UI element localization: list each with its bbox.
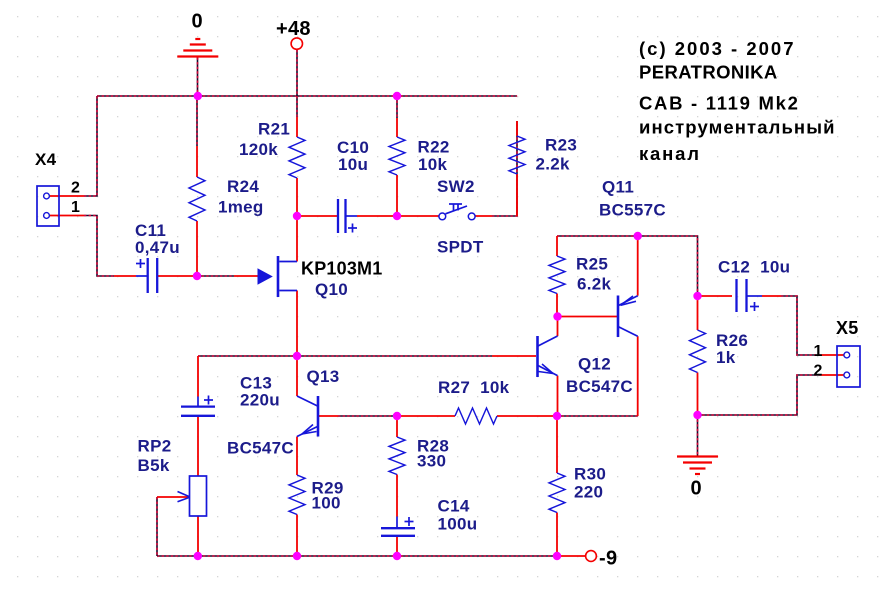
wire Q11 emitter rail to C12 node <box>557 236 698 296</box>
net label 0 right <box>691 478 702 500</box>
net label 0 top <box>192 11 203 33</box>
wire R30 pins <box>556 416 558 556</box>
wire C14 bottom pin <box>396 536 398 556</box>
resistor R25 <box>549 256 565 294</box>
wire R26 pins <box>697 296 699 415</box>
wire Q12 base pin <box>492 355 536 357</box>
value label BC547C <box>566 377 633 396</box>
wire X4 pin1 to C11 <box>84 216 114 277</box>
svg-text:220u: 220u <box>240 391 280 410</box>
wire C12 to X5 pin1 <box>781 296 821 355</box>
value label 220 <box>574 483 603 502</box>
wire Q11 base pin <box>557 316 617 318</box>
pin number 2 X4 <box>71 180 80 197</box>
value label R25 <box>576 255 608 274</box>
value label B5k <box>138 456 170 475</box>
value label R28 <box>417 437 449 456</box>
svg-text:R24: R24 <box>227 177 259 196</box>
wire Q13 collector emitter pins <box>296 356 298 475</box>
transistor Q12 <box>538 336 558 377</box>
value label Q12 <box>578 355 611 374</box>
value label R27 10k <box>438 378 510 397</box>
value label C12 10u <box>718 258 790 277</box>
value label R30 <box>574 465 606 484</box>
value label C11 <box>135 221 166 240</box>
wire X5 pin stubs <box>821 355 844 375</box>
wire R24 pins <box>196 146 198 276</box>
svg-text:-9: -9 <box>599 548 617 570</box>
wire R26 node to ground <box>697 415 699 456</box>
value label 10u <box>338 155 368 174</box>
junction <box>293 212 301 220</box>
wire X4 pin2 to bus <box>84 96 97 196</box>
wire R27 node to Q11 collector <box>557 415 638 417</box>
connector X5 <box>837 346 860 387</box>
value label 10k <box>418 155 448 174</box>
value label 1meg <box>218 198 264 217</box>
junction <box>553 312 561 320</box>
title text block <box>639 38 836 164</box>
value label 6.2k <box>577 275 612 294</box>
svg-text:C12 10u: C12 10u <box>718 258 790 277</box>
value label SW2 <box>437 177 475 196</box>
value label R24 <box>227 177 259 196</box>
wire +48 to R21 <box>296 50 298 117</box>
svg-text:R30: R30 <box>574 465 606 484</box>
svg-text:1meg: 1meg <box>218 198 264 217</box>
wire C11 node to Q10 gate <box>197 275 234 277</box>
junction <box>393 212 401 220</box>
svg-text:R25: R25 <box>576 255 608 274</box>
resistor R24 <box>189 177 205 221</box>
wire -9 terminal stub <box>557 555 586 557</box>
junction <box>293 552 301 560</box>
power terminal +48 <box>291 38 302 49</box>
value label 0,47u <box>135 238 180 257</box>
capacitor C12 <box>737 279 763 312</box>
svg-text:10k: 10k <box>418 155 448 174</box>
value label Q11 <box>602 178 634 197</box>
wire R22 pins <box>396 118 398 216</box>
svg-text:2: 2 <box>814 363 823 380</box>
transistor Q13 <box>297 396 318 437</box>
value label R29 <box>312 479 344 498</box>
junction <box>393 412 401 420</box>
value label R21 <box>258 120 290 139</box>
wire C11 pin right <box>158 275 197 277</box>
junction <box>693 292 701 300</box>
svg-text:B5k: B5k <box>138 456 170 475</box>
wire corner <box>516 95 518 97</box>
wire bus to R24 <box>196 96 198 146</box>
value label R22 <box>418 138 450 157</box>
resistor R26 <box>690 330 706 373</box>
svg-text:SW2: SW2 <box>437 177 475 196</box>
value label SPDT <box>437 238 484 257</box>
wire R25 pins <box>556 236 558 317</box>
svg-text:2: 2 <box>71 180 80 197</box>
svg-text:0,47u: 0,47u <box>135 238 180 257</box>
wire R23 pins <box>516 121 518 216</box>
wire R21 pins <box>296 117 298 216</box>
resistor R23 <box>509 136 525 174</box>
svg-text:X4: X4 <box>35 150 57 169</box>
svg-text:100: 100 <box>312 494 341 513</box>
svg-text:100u: 100u <box>438 515 478 534</box>
value label BC557C <box>599 201 666 220</box>
junction <box>193 272 201 280</box>
junction <box>553 552 561 560</box>
value label 100 <box>312 494 341 513</box>
svg-text:CAB - 1119 Mk2: CAB - 1119 Mk2 <box>639 93 800 114</box>
wire C12 pins <box>698 295 782 297</box>
resistor R28 <box>389 437 405 475</box>
ground 0 right <box>677 457 718 475</box>
label X5 <box>836 318 859 338</box>
value label R26 <box>716 331 748 350</box>
value label C13 <box>240 374 272 393</box>
switch SW2 <box>439 204 475 220</box>
svg-text:120k: 120k <box>239 140 278 159</box>
junction <box>393 552 401 560</box>
svg-text:инструментальный: инструментальный <box>639 117 836 138</box>
capacitor C10 <box>338 199 357 233</box>
svg-text:(c) 2003 - 2007: (c) 2003 - 2007 <box>639 38 796 59</box>
value label C14 <box>438 497 470 516</box>
svg-text:R21: R21 <box>258 120 290 139</box>
label X4 <box>35 150 57 169</box>
junction <box>393 92 401 100</box>
value label Q13 <box>307 367 340 386</box>
svg-text:Q12: Q12 <box>578 355 611 374</box>
svg-text:PERATRONIKA: PERATRONIKA <box>639 62 778 83</box>
svg-text:Q13: Q13 <box>307 367 340 386</box>
wire Q13 base pin <box>319 415 338 417</box>
svg-text:1: 1 <box>814 343 823 360</box>
wire RP2 wiper drop <box>156 497 158 556</box>
transistor Q11 <box>618 296 638 338</box>
resistor R27 <box>455 408 497 424</box>
ground 0 top-left <box>177 39 218 57</box>
value label 120k <box>239 140 278 159</box>
wire Q10 drain and source pins <box>296 216 298 356</box>
junction <box>693 411 701 419</box>
capacitor C13 <box>181 396 215 416</box>
connector X4 <box>37 186 59 226</box>
wire ground bus top <box>97 95 517 97</box>
wire X4 pin stubs <box>49 196 84 216</box>
svg-text:X5: X5 <box>836 318 859 338</box>
junction <box>634 232 642 240</box>
value label R23 <box>545 136 577 155</box>
potentiometer RP2 <box>157 476 207 516</box>
wire bus to R22 <box>396 96 398 118</box>
wire C10 pins <box>300 215 397 217</box>
svg-text:330: 330 <box>417 452 446 471</box>
capacitor C14 <box>381 517 415 536</box>
wire ground symbol stem <box>197 58 199 97</box>
svg-text:KP103M1: KP103M1 <box>301 259 382 279</box>
svg-text:BC557C: BC557C <box>599 201 666 220</box>
resistor R29 <box>289 475 305 515</box>
svg-text:6.2k: 6.2k <box>577 275 612 294</box>
value label RP2 <box>138 437 172 456</box>
wire mid rail to Q12 base <box>198 355 492 357</box>
svg-text:0: 0 <box>691 478 702 500</box>
net label +48 <box>276 18 311 40</box>
wire Q13 base to R27 node <box>338 415 397 417</box>
resistor R22 <box>389 137 405 175</box>
value label 100u <box>438 515 478 534</box>
pin number 1 X5 <box>814 343 823 360</box>
svg-text:C14: C14 <box>438 497 470 516</box>
wire R27 pins <box>397 415 557 417</box>
pin number 1 X4 <box>71 199 80 216</box>
value label 220u <box>240 391 280 410</box>
svg-text:RP2: RP2 <box>138 437 172 456</box>
JFET Q10 KP103M1 <box>258 256 298 297</box>
junction <box>553 412 561 420</box>
power terminal -9 <box>586 551 597 562</box>
value label 2.2k <box>536 155 571 174</box>
label KP103M1 <box>301 259 382 279</box>
wire bottom rail <box>157 555 557 557</box>
wire C11 pin left <box>114 275 136 277</box>
svg-text:BC547C: BC547C <box>227 439 294 458</box>
svg-text:Q11: Q11 <box>602 178 634 197</box>
svg-text:R22: R22 <box>418 138 450 157</box>
svg-text:Q10: Q10 <box>315 280 348 299</box>
svg-text:10u: 10u <box>338 155 368 174</box>
wire SW2 to R23 <box>492 121 517 216</box>
wire X5 pin2 to R26 node <box>698 375 822 415</box>
capacitor C11 <box>136 258 157 293</box>
svg-text:SPDT: SPDT <box>437 238 484 257</box>
junction <box>293 352 301 360</box>
wire C13 pins <box>197 356 199 556</box>
wire R29 bottom pin <box>296 515 298 557</box>
wire Q12 collector emitter pins <box>557 317 559 417</box>
svg-text:R23: R23 <box>545 136 577 155</box>
wire Q10 gate pin <box>234 275 258 277</box>
wire SW2 pins <box>397 215 492 217</box>
svg-text:2.2k: 2.2k <box>536 155 571 174</box>
svg-text:+48: +48 <box>276 18 311 40</box>
svg-text:1k: 1k <box>716 348 736 367</box>
value label C10 <box>337 138 369 157</box>
svg-text:R27 10k: R27 10k <box>438 378 510 397</box>
wire R28 pins <box>396 416 398 517</box>
svg-text:1: 1 <box>71 199 80 216</box>
junction <box>194 92 202 100</box>
net label -9 <box>599 548 617 570</box>
resistor R21 <box>289 137 305 178</box>
value label 1k <box>716 348 736 367</box>
svg-text:канал: канал <box>639 143 701 164</box>
svg-text:220: 220 <box>574 483 603 502</box>
wire Q11 emitter collector pins <box>637 236 639 416</box>
resistor R30 <box>549 473 565 513</box>
junction <box>194 552 202 560</box>
svg-text:BC547C: BC547C <box>566 377 633 396</box>
pin number 2 X5 <box>814 363 823 380</box>
value label Q10 <box>315 280 348 299</box>
value label BC547C <box>227 439 294 458</box>
value label 330 <box>417 452 446 471</box>
svg-text:0: 0 <box>192 11 203 33</box>
